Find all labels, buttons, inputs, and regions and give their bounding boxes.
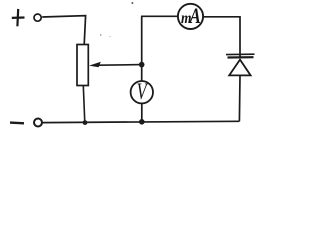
svg-text:A: A [188,3,200,28]
